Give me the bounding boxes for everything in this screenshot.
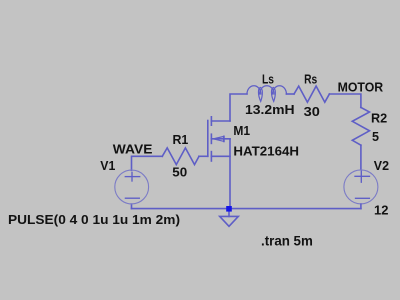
- svg-text:PULSE(0 4 0 1u 1u 1m 2m): PULSE(0 4 0 1u 1u 1m 2m): [8, 212, 180, 227]
- ground: [220, 212, 239, 227]
- wire to MOTOR corner: [329, 94, 361, 107]
- svg-text:V2: V2: [374, 159, 389, 173]
- svg-text:13.2mH: 13.2mH: [245, 103, 295, 117]
- svg-text:Rs: Rs: [304, 73, 317, 87]
- svg-text:M1: M1: [233, 124, 250, 138]
- svg-text:V1: V1: [100, 159, 115, 173]
- voltage source V2: [344, 170, 378, 204]
- resistor R1: [162, 148, 199, 165]
- svg-text:R1: R1: [173, 133, 189, 147]
- wire R2 to V2: [360, 145, 362, 169]
- svg-text:R2: R2: [371, 111, 387, 125]
- svg-text:12: 12: [374, 203, 388, 217]
- wire gate lead: [199, 155, 208, 157]
- svg-text:5: 5: [372, 130, 379, 144]
- svg-text:50: 50: [172, 166, 187, 180]
- wire V1 bottom stub: [131, 204, 133, 209]
- resistor Rs: [294, 86, 329, 102]
- transistor M1: [208, 117, 230, 161]
- wire V1 top to R1: [132, 156, 163, 170]
- wire bottom rail: [132, 208, 361, 210]
- svg-text:30: 30: [304, 105, 320, 119]
- node junction at ground: [226, 206, 232, 212]
- wire V2 bottom stub: [360, 204, 362, 209]
- wire mosfet source down to rail: [229, 139, 231, 209]
- svg-text:Ls: Ls: [262, 73, 274, 87]
- resistor R2: [352, 107, 369, 145]
- svg-text:HAT2164H: HAT2164H: [233, 145, 299, 159]
- svg-text:WAVE: WAVE: [113, 142, 153, 156]
- voltage source V1: [115, 170, 149, 204]
- svg-text:MOTOR: MOTOR: [338, 80, 384, 94]
- svg-text:.tran 5m: .tran 5m: [261, 234, 313, 249]
- wire drain up and to inductor: [230, 94, 247, 121]
- inductor Ls: [247, 86, 294, 102]
